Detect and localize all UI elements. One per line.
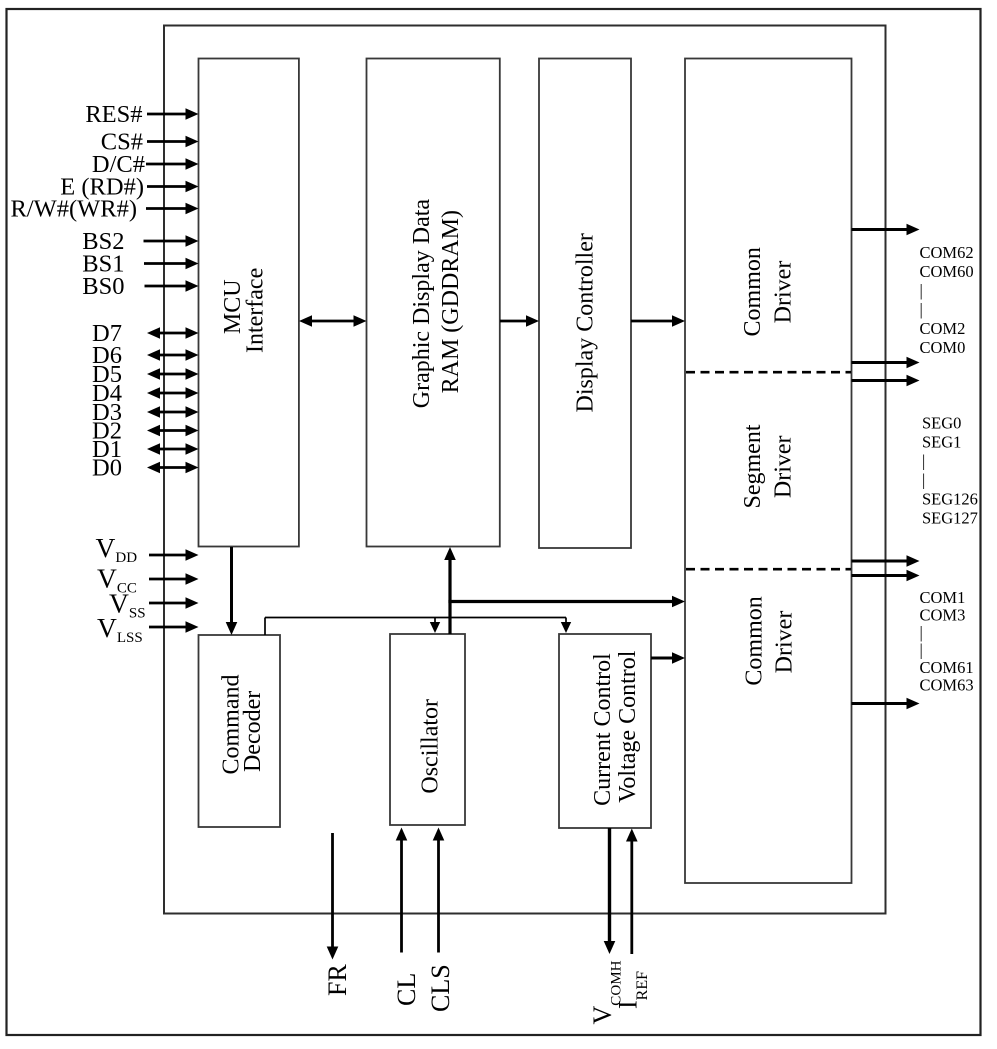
pin D2: label and bidirectional arrow to MCU Interface [92, 418, 198, 445]
svg-text:CL: CL [392, 973, 421, 1006]
svg-text:SEG127: SEG127 [922, 509, 978, 528]
svg-text:COM63: COM63 [920, 676, 974, 695]
net labels: SEG0 SEG1 | | SEG126 SEG127 [922, 414, 978, 528]
wire: GDDRAM -> Display Controller [500, 315, 539, 327]
wire: Command Decoder control bus to Oscillator and Current/Voltage Control [265, 618, 571, 636]
svg-text:COM60: COM60 [920, 262, 974, 281]
output arrows: SEG/COM boundary (lower pair) [852, 555, 920, 581]
svg-text:CLS: CLS [426, 964, 455, 1012]
wire: Display Controller -> Common Driver [631, 315, 685, 327]
svg-text:|: | [920, 300, 923, 319]
chip boundary [164, 26, 886, 914]
svg-text:COM2: COM2 [920, 319, 966, 338]
svg-text:|: | [922, 471, 925, 490]
svg-text:Common: Common [742, 596, 768, 685]
pin IREF: reference current input arrow and label [614, 829, 652, 1010]
dashed separator between Segment Driver and bottom Common Driver [686, 568, 851, 571]
svg-text:Driver: Driver [771, 435, 797, 498]
label: Segment Driver [740, 424, 797, 508]
pin VSS: supply label and arrow into chip [109, 588, 199, 622]
pin VCC: supply label and arrow into chip [97, 563, 199, 597]
block: Oscillator [390, 634, 465, 825]
pin D7: label and bidirectional arrow to MCU Interface [92, 320, 198, 347]
svg-text:Interface: Interface [243, 268, 269, 353]
svg-text:Voltage Control: Voltage Control [615, 650, 641, 803]
label: Common Driver (top) [740, 247, 796, 336]
wire: MCU Interface <-> GDDRAM bidirectional bus [299, 315, 367, 327]
pin VCOMH: output arrow and label [588, 828, 625, 1025]
svg-text:COM61: COM61 [920, 658, 974, 677]
pin BS0: label and arrow into MCU Interface [82, 273, 198, 300]
svg-text:|: | [920, 641, 923, 660]
svg-text:Segment: Segment [740, 424, 766, 508]
svg-text:Oscillator: Oscillator [418, 699, 444, 794]
block: Graphic Display Data RAM (GDDRAM) [367, 59, 500, 547]
svg-text:Current Control: Current Control [590, 653, 616, 806]
svg-text:|: | [922, 452, 925, 471]
label: Common Driver (bottom) [742, 596, 798, 685]
pin VLSS: supply label and arrow into chip [97, 612, 199, 646]
pin VDD: supply label and arrow into chip [96, 532, 199, 566]
pin E (RD#): label and arrow into MCU Interface [60, 174, 198, 201]
svg-text:FR: FR [323, 964, 352, 996]
svg-text:COM0: COM0 [920, 338, 966, 357]
svg-text:SEG0: SEG0 [922, 414, 961, 433]
svg-text:SEG126: SEG126 [922, 490, 978, 509]
svg-text:BS0: BS0 [82, 273, 124, 300]
block: Display Controller [539, 59, 631, 549]
block: Command Decoder [199, 635, 281, 827]
svg-text:|: | [920, 623, 923, 642]
pin D1: label and bidirectional arrow to MCU Interface [92, 436, 198, 463]
block: Current Control / Voltage Control [559, 634, 651, 828]
svg-text:Display Controller: Display Controller [573, 233, 599, 412]
pin FR: frame sync output arrow and label [323, 833, 352, 996]
output arrow: COM lines (bottom) [852, 698, 920, 710]
wire: Current Control -> Common Driver [651, 652, 685, 664]
net labels: COM1 COM3 | | COM61 COM63 [920, 588, 974, 695]
wire: MCU Interface -> Command Decoder (vertical) [226, 547, 238, 635]
pin D6: label and bidirectional arrow to MCU Interface [92, 342, 198, 369]
pin BS1: label and arrow into MCU Interface [82, 251, 198, 278]
pin CS#: label and arrow into MCU Interface [101, 129, 199, 156]
pin D3: label and bidirectional arrow to MCU Interface [92, 399, 198, 426]
svg-text:D0: D0 [92, 455, 122, 482]
svg-text:RES#: RES# [85, 101, 142, 128]
svg-text:Driver: Driver [770, 261, 796, 324]
wire: display clock bus to output drivers (thick horizontal) [448, 596, 685, 608]
net labels: COM62 COM60 | | COM2 COM0 [920, 243, 974, 357]
output arrow: COM lines (top) [852, 224, 920, 236]
svg-text:COM62: COM62 [920, 243, 974, 262]
svg-text:Graphic Display Data: Graphic Display Data [409, 199, 435, 409]
svg-text:SEG1: SEG1 [922, 433, 961, 452]
pin D5: label and bidirectional arrow to MCU Interface [92, 361, 198, 388]
pin R/W#(WR#): label and arrow into MCU Interface [10, 196, 198, 223]
svg-text:COM3: COM3 [920, 606, 966, 625]
pin CLS: clock select input arrow and label [426, 828, 455, 1013]
svg-text:|: | [920, 281, 923, 300]
pin D0: label and bidirectional arrow to MCU Interface [92, 455, 198, 482]
svg-text:R/W#(WR#): R/W#(WR#) [10, 196, 137, 223]
output arrows: COM/SEG boundary (upper pair) [852, 357, 920, 387]
pin RES#: label and arrow into MCU Interface [85, 101, 198, 128]
pin D/C#: label and arrow into MCU Interface [92, 151, 199, 178]
block: Common Driver / Segment Driver / Common Driver (output drivers) [685, 59, 852, 884]
svg-text:RAM (GDDRAM): RAM (GDDRAM) [438, 210, 464, 393]
svg-text:Driver: Driver [771, 611, 797, 674]
dashed separator between top Common Driver and Segment Driver [686, 371, 851, 374]
pin BS2: label and arrow into MCU Interface [82, 228, 198, 255]
wire: Oscillator -> GDDRAM (vertical, arrow up) [444, 547, 456, 634]
pin D4: label and bidirectional arrow to MCU Interface [92, 380, 198, 407]
block: MCU Interface [199, 59, 299, 547]
svg-text:COM1: COM1 [920, 588, 966, 607]
svg-text:Common: Common [740, 247, 766, 336]
pin CL: external clock input arrow and label [392, 828, 421, 1007]
svg-text:Decoder: Decoder [240, 691, 266, 772]
